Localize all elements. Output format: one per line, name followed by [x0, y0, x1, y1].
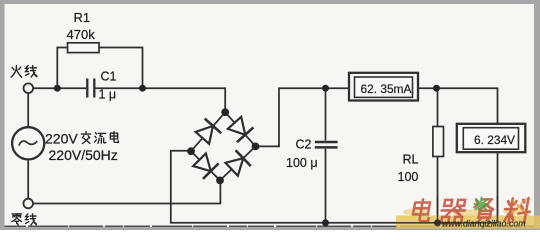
svg-text:100 μ: 100 μ — [286, 156, 318, 170]
svg-text:C2: C2 — [296, 137, 312, 151]
svg-text:220V/50Hz: 220V/50Hz — [49, 147, 118, 163]
svg-text:1 μ: 1 μ — [99, 88, 117, 102]
svg-text:470k: 470k — [67, 27, 96, 42]
svg-text:6. 234V: 6. 234V — [474, 133, 515, 147]
svg-text:RL: RL — [403, 153, 419, 167]
svg-text:100: 100 — [398, 170, 419, 184]
svg-text:R1: R1 — [74, 10, 91, 25]
svg-text:220V: 220V — [45, 131, 78, 147]
svg-text:C1: C1 — [101, 70, 117, 84]
svg-text:62. 35mA: 62. 35mA — [361, 82, 412, 96]
